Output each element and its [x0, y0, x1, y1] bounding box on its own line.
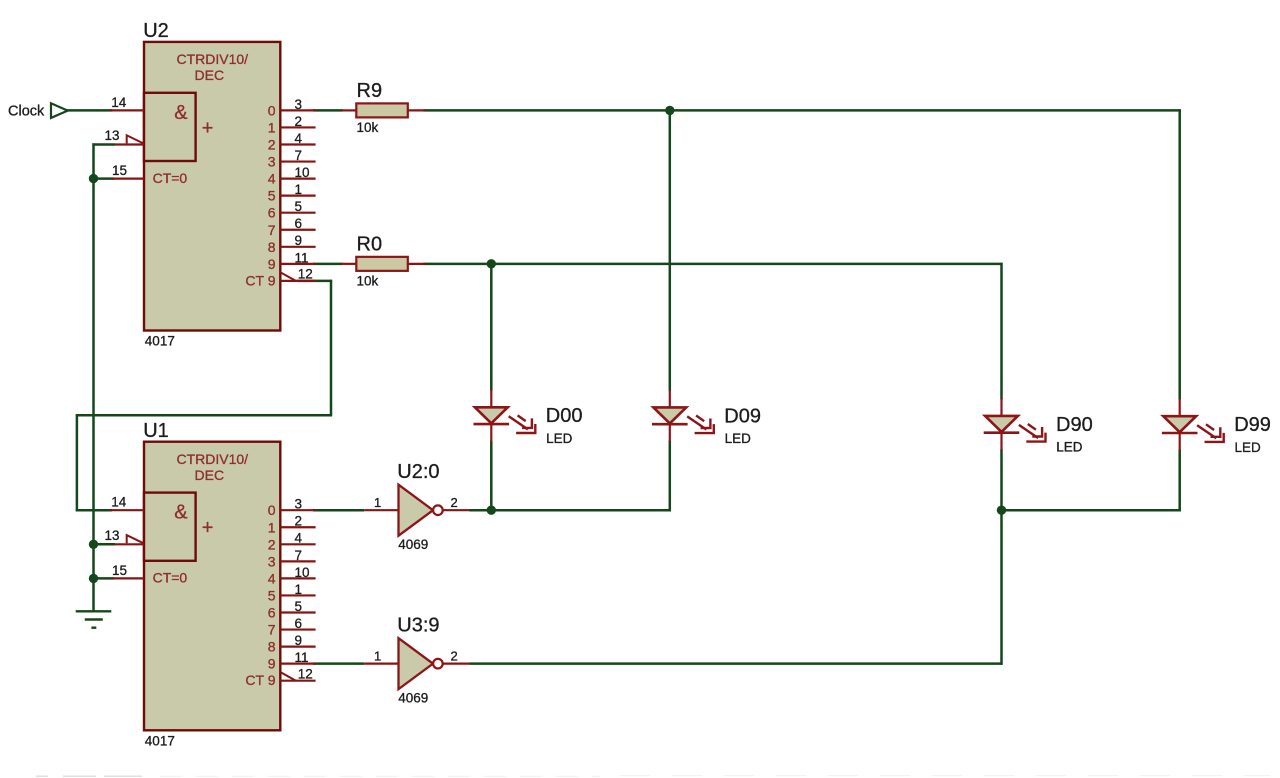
svg-text:CT=0: CT=0 [153, 170, 188, 186]
U2:0 output pin 2 [443, 509, 470, 511]
wire down to ground symbol [92, 578, 95, 611]
svg-text:Clock: Clock [8, 104, 45, 120]
svg-text:&: & [174, 502, 188, 524]
svg-text:LED: LED [1235, 440, 1262, 455]
wire U2 output 9 to R0 [313, 263, 343, 266]
wire riser D90 column up to node [1000, 509, 1003, 665]
svg-text:1: 1 [268, 119, 276, 135]
svg-text:2: 2 [295, 114, 303, 129]
svg-text:11: 11 [295, 650, 309, 665]
svg-text:10: 10 [295, 165, 310, 180]
svg-text:4: 4 [268, 171, 276, 187]
wire branch D09 anode from R9 net [669, 110, 672, 390]
svg-text:DEC: DEC [195, 67, 225, 83]
wire branch D00 anode from R0 net [490, 264, 493, 391]
svg-text:15: 15 [112, 563, 127, 578]
D09 anode pin [669, 390, 671, 408]
svg-text:4017: 4017 [145, 334, 175, 349]
wire U1 output 0 to U2:0 input [313, 509, 364, 512]
U2 output 3 (pin 7) [280, 160, 315, 162]
U1 body [144, 442, 280, 731]
U2 pin 13 (dynamic input wedge) [115, 143, 144, 145]
resistor R0 10k [341, 233, 425, 288]
svg-text:U3:9: U3:9 [397, 614, 439, 636]
LED D99 [1162, 399, 1271, 455]
svg-text:R0: R0 [357, 233, 383, 255]
U2 pin 15 (reset) [113, 178, 145, 180]
svg-text:4: 4 [295, 131, 303, 146]
svg-text:2: 2 [268, 137, 276, 153]
wire U2 pin 13 to reset net [92, 143, 115, 146]
U1 pin 14 (CLK) [110, 509, 145, 511]
U1 clock AND-block [144, 493, 196, 561]
svg-text:0: 0 [268, 102, 276, 118]
svg-text:7: 7 [295, 148, 303, 163]
U1 output 8 (pin 9) [280, 645, 315, 647]
svg-text:2: 2 [451, 648, 458, 663]
svg-text:0: 0 [268, 502, 276, 518]
D90 anode pin [1000, 398, 1002, 416]
svg-text:9: 9 [295, 633, 303, 648]
svg-text:1: 1 [295, 582, 303, 597]
svg-text:10k: 10k [357, 273, 379, 288]
U1 output 9 (pin 11) [280, 663, 315, 665]
svg-text:8: 8 [268, 639, 276, 655]
U1 output 5 (pin 1) [280, 594, 315, 596]
svg-text:CT 9: CT 9 [245, 272, 275, 288]
U2 output 0 (pin 3) [280, 109, 315, 111]
wire riser up to D99 cathode [1178, 449, 1181, 511]
svg-text:4: 4 [268, 570, 276, 586]
wire U2:0 output to D09 riser [470, 509, 671, 512]
svg-text:1: 1 [295, 182, 303, 197]
svg-text:5: 5 [295, 199, 303, 214]
U3:9 triangle [399, 638, 434, 689]
D09 cathode pin [669, 424, 671, 442]
U2 output 7 (pin 6) [280, 229, 315, 231]
svg-text:4069: 4069 [398, 537, 428, 552]
svg-text:12: 12 [298, 267, 313, 282]
wire CT9 net left [76, 414, 332, 417]
svg-text:9: 9 [295, 233, 303, 248]
svg-text:6: 6 [295, 216, 303, 231]
svg-text:LED: LED [725, 431, 752, 446]
D00 light emission arrows [509, 415, 536, 433]
svg-text:9: 9 [268, 256, 276, 272]
U3:9 input pin 1 [364, 663, 398, 665]
U1 output 0 (pin 3) [280, 509, 315, 511]
wire U1 pin 15 stub [94, 577, 115, 580]
U2 pin 14 (CLK) [110, 109, 145, 111]
svg-text:6: 6 [268, 605, 276, 621]
D90 cathode bar [984, 431, 1020, 434]
svg-text:U2:0: U2:0 [397, 461, 439, 483]
D99 cathode bar [1162, 432, 1198, 435]
wire riser up to D09 cathode [669, 441, 672, 512]
svg-text:3: 3 [295, 497, 303, 512]
D09 light emission arrows [687, 416, 714, 434]
U2 output 6 (pin 5) [280, 212, 315, 214]
counter U1 (4017 CTRDIV10/DEC) [105, 420, 316, 749]
wire D90 cathode down to node [1000, 449, 1003, 510]
node U2 pin15 reset junction [89, 174, 98, 183]
node D90 cathode / D99 net junction [997, 506, 1006, 515]
wire node to D99 riser [1002, 509, 1181, 512]
svg-text:9: 9 [268, 656, 276, 672]
wire U2 pin 15 stub [94, 177, 115, 180]
wire R0 net corner down to D90 anode [1000, 263, 1003, 400]
D00 cathode bar [474, 423, 510, 426]
inverter U2:0 (4069) [364, 461, 469, 552]
U2 output 9 (pin 11) [280, 263, 315, 265]
U2:0 triangle [399, 485, 434, 536]
D00 anode pin [490, 390, 492, 408]
node R0 net / D00 anode junction [487, 259, 496, 268]
U2 carry output CT 9 (pin 12) [280, 280, 315, 282]
svg-text:7: 7 [268, 622, 276, 638]
svg-text:CT 9: CT 9 [245, 672, 275, 688]
resistor R9 10k [341, 80, 425, 135]
svg-text:5: 5 [268, 587, 276, 603]
svg-text:1: 1 [374, 495, 381, 510]
svg-text:D00: D00 [546, 405, 583, 427]
node U2:0 output / D00 cathode junction [487, 506, 496, 515]
svg-text:11: 11 [295, 250, 309, 265]
U1 pin 13 (dynamic input wedge) [115, 543, 144, 545]
wire reset net vertical (U2 pin13 to ground) [92, 143, 95, 578]
svg-text:2: 2 [268, 536, 276, 552]
svg-text:1: 1 [268, 519, 276, 535]
D90 diode triangle [985, 416, 1018, 432]
wire R9 net corner down to D99 anode [1178, 109, 1181, 399]
wire D00 cathode down to U2:0 output net [490, 441, 493, 510]
U2 output 1 (pin 2) [280, 126, 315, 128]
LED D09 [652, 390, 761, 446]
svg-text:12: 12 [298, 667, 313, 682]
U1 output 2 (pin 4) [280, 543, 315, 545]
wire U1 pin 13 stub [94, 543, 116, 546]
wire Clock terminal to U2 pin 14 [67, 109, 113, 112]
input terminal Clock [8, 103, 68, 119]
U1 output 7 (pin 6) [280, 628, 315, 630]
wire U2 CT9 to corner [297, 280, 332, 283]
svg-text:LED: LED [1056, 440, 1083, 455]
wire U3:9 output to D90 riser [470, 662, 1003, 665]
faint window edge artifact at bottom [36, 775, 142, 777]
svg-text:3: 3 [295, 97, 303, 112]
U3:9 output pin 2 [443, 663, 470, 665]
D90 cathode pin [1000, 433, 1002, 451]
D00 cathode pin [490, 424, 492, 442]
svg-text:13: 13 [105, 528, 120, 543]
svg-text:15: 15 [112, 163, 127, 178]
svg-text:DEC: DEC [195, 467, 225, 483]
U1 output 6 (pin 5) [280, 611, 315, 613]
wire R0 to D90 top (net R0) [424, 263, 1003, 266]
U2 output 2 (pin 4) [280, 143, 315, 145]
U2 output 4 (pin 10) [280, 178, 315, 180]
svg-text:U1: U1 [143, 420, 169, 442]
svg-text:13: 13 [105, 128, 120, 143]
svg-text:D99: D99 [1234, 414, 1271, 436]
svg-text:5: 5 [295, 599, 303, 614]
svg-text:LED: LED [546, 431, 573, 446]
svg-text:3: 3 [268, 553, 276, 569]
D00 diode triangle [475, 407, 508, 423]
D09 cathode bar [652, 423, 688, 426]
D99 light emission arrows [1197, 424, 1224, 442]
svg-text:6: 6 [295, 616, 303, 631]
svg-text:4017: 4017 [145, 734, 175, 749]
svg-text:5: 5 [268, 188, 276, 204]
U1 carry output CT 9 (pin 12) [280, 680, 315, 682]
D09 diode triangle [653, 407, 686, 423]
svg-text:CT=0: CT=0 [153, 570, 188, 586]
U2 body [144, 42, 280, 331]
node U1 pin13 reset junction [89, 540, 98, 549]
wire CT9 net to U1 pin 14 [76, 509, 112, 512]
svg-text:10: 10 [295, 565, 310, 580]
svg-text:2: 2 [295, 514, 303, 529]
svg-text:U2: U2 [143, 20, 169, 42]
svg-text:3: 3 [268, 154, 276, 170]
svg-text:2: 2 [451, 495, 458, 510]
U1 output 4 (pin 10) [280, 577, 315, 579]
svg-text:R9: R9 [357, 80, 383, 102]
LED D00 [474, 390, 583, 446]
wire R9 to D99 top (net R9) [424, 109, 1181, 112]
inverter U3:9 (4069) [364, 614, 469, 705]
svg-text:10k: 10k [357, 120, 379, 135]
D99 diode triangle [1163, 416, 1196, 432]
D90 light emission arrows [1019, 424, 1046, 442]
wire CT9 net down to U1 pin 14 row [76, 414, 79, 511]
U3:9 inversion bubble [433, 659, 443, 669]
ground [76, 611, 112, 627]
wire U1 output 9 to U3:9 input [313, 662, 364, 665]
U2:0 inversion bubble [433, 505, 443, 515]
U2 clock AND-block [144, 93, 196, 161]
wire CT9 net down [330, 280, 333, 415]
svg-text:+: + [202, 117, 214, 139]
svg-text:D90: D90 [1056, 414, 1093, 436]
svg-text:4069: 4069 [398, 690, 428, 705]
svg-text:7: 7 [268, 222, 276, 238]
U1 output 3 (pin 7) [280, 560, 315, 562]
U1 output 1 (pin 2) [280, 526, 315, 528]
svg-text:+: + [202, 517, 214, 539]
counter U2 (4017 CTRDIV10/DEC) [105, 20, 316, 349]
U2 output 5 (pin 1) [280, 195, 315, 197]
LED D90 [984, 398, 1093, 454]
svg-text:CTRDIV10/: CTRDIV10/ [177, 51, 249, 67]
svg-text:CTRDIV10/: CTRDIV10/ [177, 451, 249, 467]
svg-text:4: 4 [295, 531, 303, 546]
D99 cathode pin [1179, 433, 1181, 451]
U2:0 input pin 1 [364, 509, 398, 511]
wire U2 output 0 to R9 [313, 109, 343, 112]
node U1 pin15 ground junction [89, 574, 98, 583]
svg-text:1: 1 [374, 648, 381, 663]
D99 anode pin [1179, 399, 1181, 417]
svg-text:14: 14 [111, 495, 127, 510]
svg-text:14: 14 [111, 95, 127, 110]
svg-text:8: 8 [268, 239, 276, 255]
svg-text:7: 7 [295, 548, 303, 563]
svg-text:6: 6 [268, 205, 276, 221]
svg-text:&: & [174, 102, 188, 124]
node R9 net / D09 anode junction [665, 106, 674, 115]
U2 output 8 (pin 9) [280, 246, 315, 248]
U1 pin 15 (reset) [113, 577, 145, 579]
svg-text:D09: D09 [724, 405, 761, 427]
